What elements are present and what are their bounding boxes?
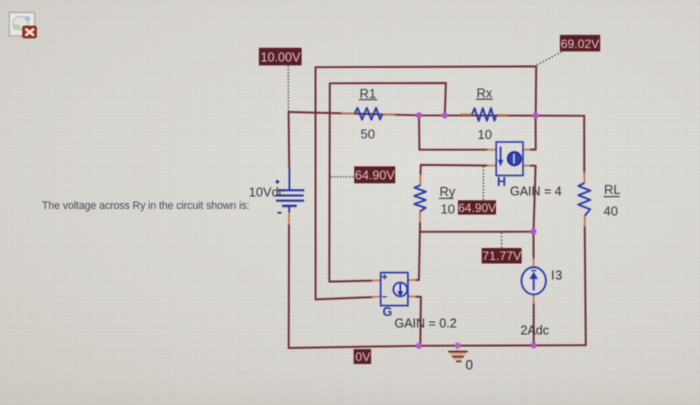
bias badge 71.77V xyxy=(482,248,522,264)
wire: RL top vertical xyxy=(583,116,585,173)
pin H out+ xyxy=(523,149,530,151)
resistor Rx xyxy=(472,108,497,121)
svg-text:Rx: Rx xyxy=(477,85,493,100)
wire: H out- down to I3 junction xyxy=(530,166,536,232)
wire: inner loop to G plus pin xyxy=(329,281,372,282)
pin Rx right xyxy=(497,114,508,116)
wire: H sense-out to Ry top xyxy=(421,165,488,175)
wire: outer top loop xyxy=(316,66,537,299)
pin R1 left xyxy=(342,112,355,114)
svg-text:GAIN = 4: GAIN = 4 xyxy=(510,184,562,198)
bias badge 0V xyxy=(354,349,371,364)
wire overlay over GAIN = 0.2 text xyxy=(420,316,422,329)
wire: Ry bottom to T xyxy=(419,222,421,232)
wire: G out- down to ground rail xyxy=(415,297,421,346)
pin G out- xyxy=(408,295,415,297)
pin H out- xyxy=(523,165,530,167)
svg-text:10Vdc: 10Vdc xyxy=(249,184,286,199)
svg-text:G: G xyxy=(383,305,393,319)
bias badge 64.90V left xyxy=(354,166,395,183)
wire: I3 bottom to ground rail xyxy=(533,303,535,346)
op H source (CCVS) U-H xyxy=(496,142,562,198)
wire: main horizontal xyxy=(289,112,585,116)
pin RL top xyxy=(583,173,585,183)
bias badge 69.02V xyxy=(560,35,600,52)
wire: T to I3 junction xyxy=(420,231,534,233)
pin G plus xyxy=(373,279,381,281)
bias badge 64.90V right xyxy=(458,200,496,215)
wire: battery top vertical xyxy=(288,112,291,168)
battery V 10Vdc xyxy=(276,168,305,213)
svg-text:50: 50 xyxy=(361,127,375,142)
pin battery bottom xyxy=(288,213,290,225)
resistor R1 xyxy=(355,108,383,120)
pin H sense-out xyxy=(488,165,497,167)
svg-text:64.90V: 64.90V xyxy=(458,201,496,215)
wire: I3 top feed xyxy=(533,232,535,259)
svg-text:10.00V: 10.00V xyxy=(261,51,302,65)
dotted connectors xyxy=(287,51,561,248)
wire: T down to G out+ xyxy=(415,232,420,280)
node junction ground-0 xyxy=(454,343,460,349)
wire: battery bottom vertical xyxy=(288,224,290,348)
wire: inner top loop xyxy=(329,83,446,282)
svg-text:R1: R1 xyxy=(360,86,377,101)
wire: bottom ground rail xyxy=(289,345,586,348)
svg-text:10: 10 xyxy=(478,127,492,142)
resistor Ry (vertical) xyxy=(414,185,426,211)
svg-text:H: H xyxy=(497,175,506,189)
wire: H out+ up to main junction xyxy=(530,116,536,150)
wire: H sense-in from main junction xyxy=(419,115,488,149)
pin R1 right xyxy=(383,113,395,115)
node junction main-H xyxy=(416,112,422,118)
node junction mid-I3 xyxy=(530,229,536,235)
wire: outer loop to G minus pin xyxy=(316,297,373,299)
svg-text:I3: I3 xyxy=(551,268,563,282)
pin I3 bottom xyxy=(533,294,535,303)
svg-text:2Adc: 2Adc xyxy=(521,323,550,337)
svg-text:10: 10 xyxy=(441,201,455,216)
svg-text:RL: RL xyxy=(604,182,621,197)
svg-text:GAIN = 0.2: GAIN = 0.2 xyxy=(395,317,457,331)
svg-text:0V: 0V xyxy=(355,350,371,364)
svg-text:Ry: Ry xyxy=(440,184,456,199)
source G (VCCS) xyxy=(381,273,457,331)
svg-text:69.02V: 69.02V xyxy=(561,37,600,51)
pin H sense-in xyxy=(488,149,497,151)
pin I3 top xyxy=(533,259,535,267)
pin Ry top xyxy=(419,175,421,185)
node junction ground-I3 xyxy=(531,342,537,348)
svg-text:71.77V: 71.77V xyxy=(482,249,522,263)
wire: RL bottom vertical xyxy=(585,226,586,345)
wire overlay over GAIN = 4 text xyxy=(534,184,536,197)
node junction main-outer-H+ xyxy=(533,113,539,119)
node junction main-inner xyxy=(442,112,448,118)
junction dots xyxy=(416,112,539,349)
svg-text:40: 40 xyxy=(604,203,618,218)
pin G out+ xyxy=(408,279,415,281)
current source I3 xyxy=(521,267,564,337)
svg-text:The voltage across Ry in the c: The voltage across Ry in the circuit sho… xyxy=(42,200,249,212)
pin Rx left xyxy=(461,113,472,115)
pin Ry bottom xyxy=(419,211,421,222)
svg-text:64.90V: 64.90V xyxy=(355,169,396,183)
pin G minus xyxy=(373,295,381,298)
bias badge 10.00V xyxy=(259,48,302,66)
svg-text:0: 0 xyxy=(466,358,474,373)
broken-image icon xyxy=(9,12,36,37)
ground 0 xyxy=(448,346,473,373)
node junction ground-G xyxy=(416,343,422,349)
resistor RL (vertical) xyxy=(578,183,590,216)
pin RL bottom xyxy=(584,216,586,226)
